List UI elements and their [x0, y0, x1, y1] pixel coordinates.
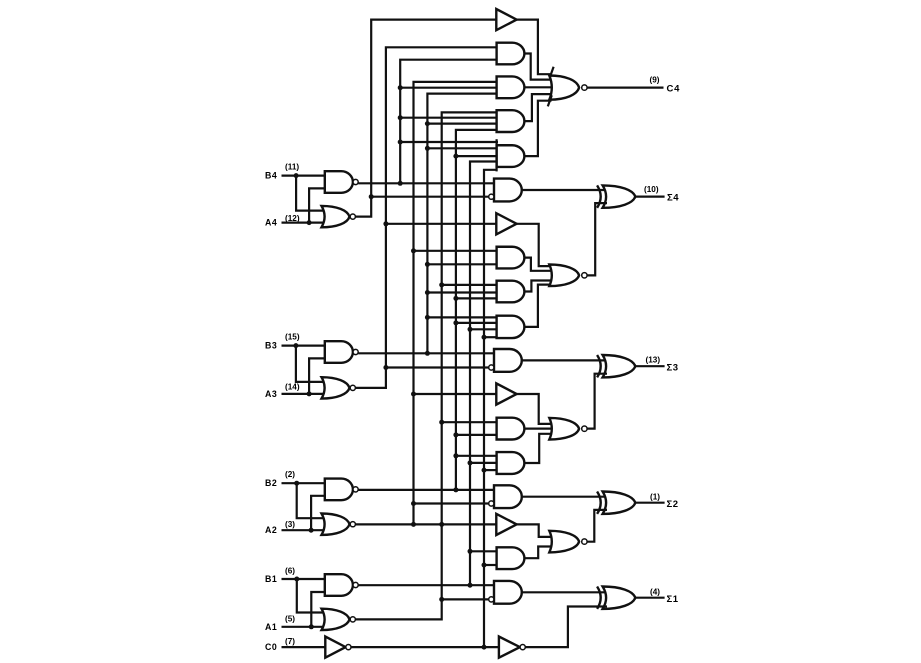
NOR gate bit 3 (B3,A3)	[322, 377, 356, 398]
svg-text:A4: A4	[265, 218, 277, 228]
bubble S3 AND input	[489, 365, 494, 370]
wire NAND1 output	[358, 584, 495, 586]
node B3	[293, 343, 298, 348]
AND gate C4-1	[497, 43, 525, 65]
AND gate S4 (half-sum bit4)	[494, 179, 522, 202]
wire NAND2 branch AND-C3C	[456, 322, 498, 324]
wire NOR1 branch AND-S1 bubble	[442, 598, 489, 600]
wire buffer-C2 out	[517, 394, 552, 424]
wire AND-C4-4 out	[524, 101, 552, 156]
NAND gate bit 2 (B2,A2)	[325, 479, 358, 501]
svg-text:Σ4: Σ4	[667, 192, 679, 203]
wire AND-C4-4 input bar	[496, 139, 498, 171]
AND gate C2-A	[497, 418, 525, 440]
wire buffer-C4 out	[517, 20, 552, 75]
svg-text:(10): (10)	[644, 185, 659, 194]
wire B1 to NOR1	[297, 579, 326, 613]
node A2	[309, 528, 314, 533]
wire NAND1 branch AND-C2B	[470, 462, 498, 464]
node A4	[307, 220, 312, 225]
wire S3 output	[635, 365, 664, 367]
NOR gate C2	[549, 418, 587, 440]
wire S2 output	[635, 502, 664, 504]
wire AND-S3 out	[522, 359, 608, 361]
svg-text:(14): (14)	[285, 382, 300, 391]
wire AND-C4-2 out	[524, 86, 552, 88]
svg-text:(2): (2)	[285, 470, 295, 479]
AND gate C4-3	[497, 110, 525, 132]
wire NOR2 branch AND-C3A	[414, 250, 499, 252]
AND gate C3-A	[497, 247, 525, 269]
wire NAND3 output	[358, 352, 495, 354]
svg-text:Σ1: Σ1	[667, 594, 679, 605]
wire S4 output	[635, 196, 664, 198]
wire C0bar branch AND-C1A	[484, 564, 498, 566]
XOR gate S1	[597, 587, 635, 609]
buffer C1 group	[496, 514, 516, 535]
NOR gate bit 1 (B1,A1)	[322, 609, 356, 630]
buffer C4 group	[496, 9, 516, 30]
wire B2 input	[282, 482, 328, 484]
wire buffer-C3 out	[517, 224, 552, 266]
AND gate C4-2	[497, 76, 525, 98]
svg-text:B4: B4	[265, 171, 277, 181]
wire NAND4 branch AND2	[400, 87, 498, 89]
wire B3 to NOR3	[296, 346, 326, 382]
NAND gate bit 1 (B1,A1)	[325, 574, 358, 596]
wire NAND1 riser	[470, 162, 497, 586]
wire NAND3 branch AND-C3A	[427, 263, 498, 265]
NOR gate C3	[549, 265, 587, 287]
svg-text:(15): (15)	[285, 333, 300, 342]
svg-text:(7): (7)	[285, 637, 295, 646]
wire B3 input	[282, 345, 328, 347]
junction NOR4 net	[369, 194, 374, 199]
wire NOR1 output riser	[355, 112, 498, 619]
wire buffer-C1 out	[517, 524, 552, 537]
XOR gate S2	[597, 492, 635, 514]
XOR gate S4	[597, 185, 635, 207]
wire AND-S1 out	[522, 591, 608, 593]
junction C0bar net	[482, 335, 487, 650]
wire NAND2 branch AND4	[456, 155, 498, 157]
wire NAND1 branch AND-C1A	[470, 550, 498, 552]
svg-text:Σ2: Σ2	[667, 499, 679, 510]
AND gate C4-4	[497, 145, 525, 167]
wire C0bar branch AND-C2B	[484, 469, 498, 471]
AND gate C3-B	[497, 281, 525, 303]
wire B4 input	[282, 175, 328, 177]
NOR gate bit 4 (B4,A4)	[322, 206, 356, 227]
wire A1 input	[282, 626, 327, 628]
wire NOR-C1 out to XOR-S2	[587, 510, 607, 542]
wire AND-S2 out	[522, 496, 608, 498]
svg-text:A2: A2	[265, 525, 277, 535]
AND gate C3-C	[497, 316, 525, 338]
svg-text:Σ3: Σ3	[667, 362, 679, 373]
wire NAND3 branch AND-C3B	[427, 291, 498, 293]
wire AND-C3C out	[524, 285, 552, 327]
inverter C0 repowering	[499, 637, 525, 658]
wire NAND2 branch AND-C2A	[456, 434, 498, 436]
svg-text:(3): (3)	[285, 520, 295, 529]
wire C0bar riser	[484, 170, 497, 647]
bubble S1 AND input	[489, 597, 494, 602]
wire NOR1 branch AND-C3B	[442, 284, 498, 286]
junction NAND3 net	[425, 121, 430, 356]
node B2	[294, 481, 299, 486]
wire NAND2 riser	[456, 130, 498, 490]
svg-text:(6): (6)	[285, 566, 295, 575]
wire S1 output	[635, 597, 664, 599]
junction NAND4 net	[398, 85, 403, 186]
wire AND-C4-3 out	[524, 94, 552, 121]
wire C4 output	[587, 86, 663, 88]
NOR gate bit 2 (B2,A2)	[322, 514, 356, 535]
svg-text:(13): (13)	[646, 356, 661, 365]
inverter C0	[325, 637, 351, 658]
svg-text:(1): (1)	[650, 493, 660, 502]
wire NOR3 branch to buffer-C3	[386, 223, 497, 225]
NAND gate bit 3 (B3,A3)	[325, 341, 358, 363]
svg-text:B1: B1	[265, 574, 277, 584]
wire NAND2 branch AND-C2B	[456, 455, 498, 457]
junction NOR1 net	[439, 282, 444, 602]
wire NAND4 branch AND4	[400, 141, 498, 143]
wire C0-inverter output	[351, 646, 499, 648]
wire NAND4 riser	[400, 60, 498, 184]
buffer C2 group	[496, 383, 516, 404]
wire C0bar branch AND-C3C	[484, 336, 498, 338]
wire B4 to NOR4	[296, 176, 326, 211]
node B4	[294, 173, 299, 178]
wire NOR-C2 out to XOR-S3	[587, 374, 607, 429]
wire NAND1 branch AND-C3C	[470, 328, 498, 330]
AND gate S1 (half-sum bit1)	[494, 581, 522, 604]
wire NOR4 output riser	[355, 20, 497, 217]
wire NAND3 branch AND-C3C	[427, 316, 498, 318]
wire NOR3 branch to AND-S3 bubble	[386, 366, 489, 368]
junction NAND1 net	[468, 327, 473, 588]
wire AND-S4 out	[522, 189, 608, 191]
wire A3 input	[282, 393, 327, 395]
wire C0 to XOR-S1	[525, 607, 607, 648]
wire NOR-C3 out to XOR-S4	[587, 203, 607, 275]
wire NAND2 output	[358, 489, 495, 491]
NOR gate C4 output	[549, 76, 587, 100]
AND gate C1-A	[497, 547, 525, 569]
tick marks C4 NOR inputs	[548, 67, 554, 107]
wire AND-C2A out	[524, 428, 552, 430]
junction NOR3 net	[383, 221, 388, 370]
svg-text:(9): (9)	[650, 76, 660, 85]
wire A1 to NAND1	[311, 592, 327, 627]
svg-text:C4: C4	[667, 84, 681, 95]
wire A4 input	[282, 222, 327, 224]
wire AND-C2B out	[524, 434, 552, 463]
NAND gate bit 4 (B4,A4)	[325, 171, 358, 193]
wire NAND4 branch AND3	[400, 117, 498, 119]
node A1	[309, 624, 314, 629]
wire B1 input	[282, 578, 328, 580]
wire AND-C3B out	[524, 281, 552, 292]
wire NOR2 riser	[414, 82, 499, 525]
wire A4 to NAND4	[309, 188, 327, 222]
buffer C3 group	[496, 213, 516, 234]
wire NOR2 output to buffer-C1	[355, 523, 497, 525]
NOR gate C1	[549, 531, 587, 553]
svg-text:B2: B2	[265, 478, 277, 488]
wire A2 input	[282, 529, 327, 531]
svg-text:B3: B3	[265, 341, 277, 351]
svg-text:(4): (4)	[650, 588, 660, 597]
bubble S2 AND input	[489, 501, 494, 506]
wire C0 input	[282, 646, 326, 648]
wire A2 to NAND2	[311, 496, 327, 530]
wire AND-C3A out	[524, 258, 552, 271]
wire AND-C1A out	[524, 547, 552, 559]
wire NOR1 branch AND-C2A	[442, 421, 498, 423]
svg-text:C0: C0	[265, 642, 277, 652]
bubble S4 AND input	[489, 194, 494, 199]
XOR gate S3	[597, 355, 635, 377]
node B1	[294, 577, 299, 582]
wire NAND3 riser	[427, 94, 498, 354]
node A3	[307, 391, 312, 396]
AND gate C2-B	[497, 452, 525, 474]
AND gate S3 (half-sum bit3)	[494, 349, 522, 372]
wire NAND2 branch AND-C3B	[456, 297, 498, 299]
svg-text:A3: A3	[265, 389, 277, 399]
wire NOR4 to AND-S4 bubble	[371, 196, 489, 198]
svg-text:(5): (5)	[285, 615, 295, 624]
AND gate S2 (half-sum bit2)	[494, 485, 522, 508]
wire A3 to NAND3	[309, 358, 327, 394]
wire B2 to NOR2	[297, 483, 326, 518]
junction NAND2 net	[453, 154, 458, 493]
svg-text:(11): (11)	[285, 162, 299, 171]
junction NOR2 net	[411, 248, 444, 527]
wire NAND3 branch AND4	[427, 147, 498, 149]
wire NOR2 branch AND-S2 bubble	[414, 502, 489, 504]
wire NAND3 branch AND3	[427, 122, 498, 124]
svg-text:A1: A1	[265, 622, 277, 632]
wire AND-C4-1 out	[524, 54, 552, 80]
wire NAND4 output	[358, 182, 495, 184]
wire NOR2 branch buffer-C2	[414, 393, 498, 395]
wire NOR3 output riser	[355, 47, 498, 388]
